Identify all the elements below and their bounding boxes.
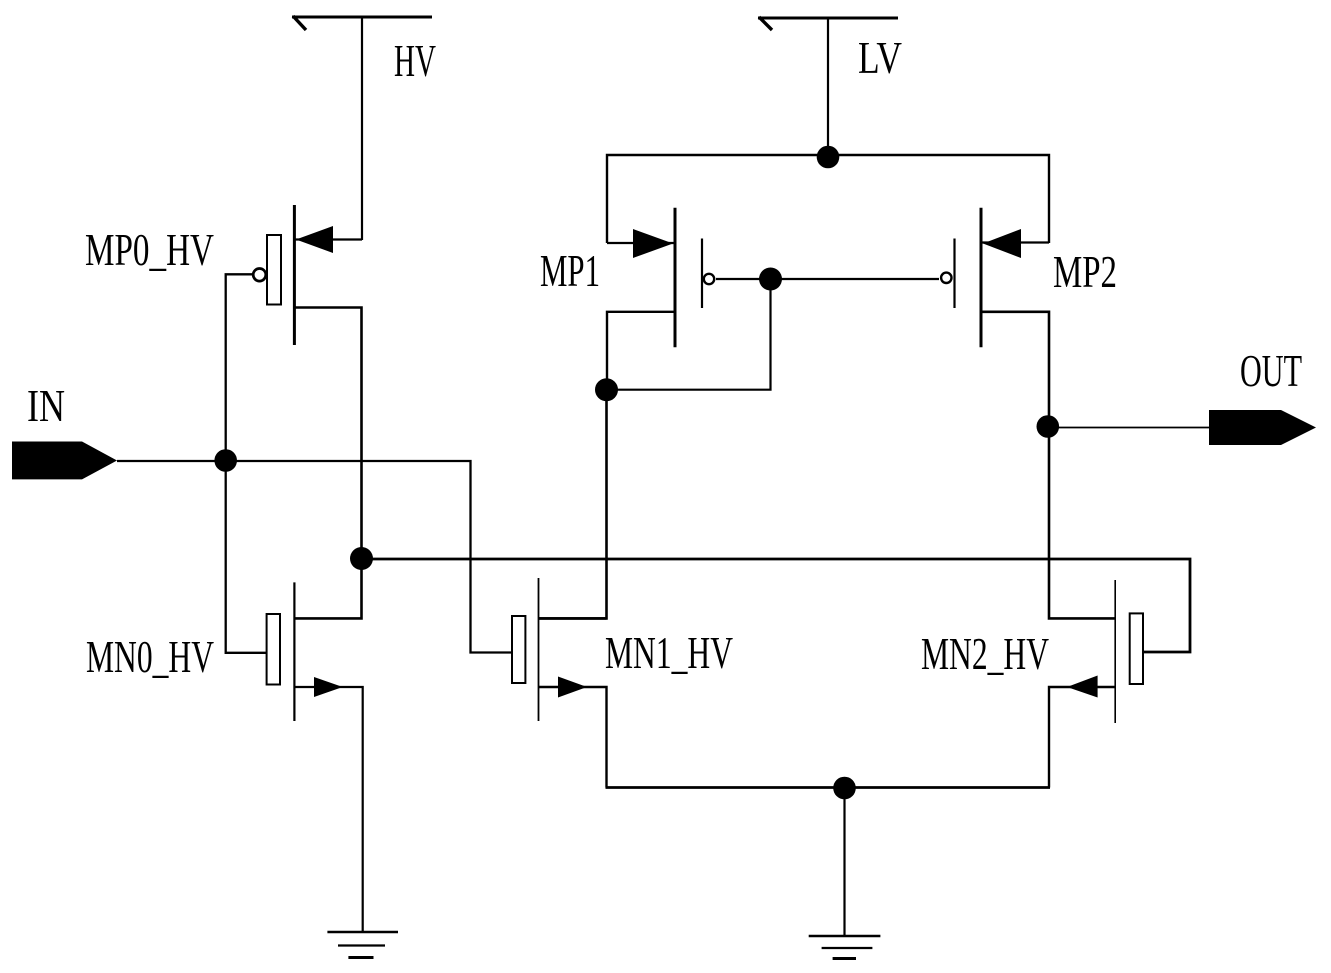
svg-text:IN: IN: [27, 380, 65, 431]
MN2 gate oxide rect: [1130, 613, 1143, 684]
wire OUT: [1049, 427, 1209, 429]
node MP1 drain junction: [595, 378, 618, 401]
node ground junction: [833, 777, 856, 800]
MP1 channel: [674, 208, 677, 348]
wire IN to MN1 gate: [117, 461, 512, 653]
wire HV stem: [361, 17, 363, 240]
wire ground stem: [843, 788, 845, 936]
wire MP0 source: [294, 238, 362, 240]
input port IN: [12, 442, 117, 480]
supply HV bar: [292, 16, 432, 19]
MP2 gate bubble: [941, 273, 951, 283]
wire MN2 source to ground rail: [1049, 687, 1115, 788]
ground (left): [327, 932, 398, 958]
MN1 source arrow: [558, 677, 587, 698]
output port OUT: [1209, 410, 1316, 445]
transistor MP1: [633, 208, 714, 348]
supply LV slash: [759, 17, 772, 30]
MP0 gate oxide rect: [267, 235, 281, 305]
svg-text:HV: HV: [394, 35, 436, 86]
svg-text:MP1: MP1: [540, 245, 600, 296]
wire LV rail to MP1/MP2 sources: [607, 155, 1049, 243]
svg-text:MN1_HV: MN1_HV: [605, 627, 733, 678]
svg-text:MP2: MP2: [1053, 246, 1117, 297]
MN0 gate oxide rect: [267, 614, 280, 685]
MP2 source arrow: [983, 229, 1021, 258]
transistor MN2_HV: [1067, 580, 1143, 723]
node IN junction: [214, 449, 237, 472]
svg-text:MN2_HV: MN2_HV: [921, 628, 1049, 679]
supply LV bar: [758, 17, 898, 20]
wire MP1 diode connection: [607, 279, 771, 390]
node X junction: [350, 547, 373, 570]
node MP1 gate junction: [759, 268, 782, 291]
wire IN node to MN0 gate: [226, 461, 267, 653]
wire node X to MN2 gate drop: [362, 559, 1191, 652]
MN2 channel: [1114, 580, 1116, 723]
MP0 gate bubble: [253, 269, 266, 282]
MP2 gate bar: [953, 239, 955, 309]
wire LV stem: [827, 18, 829, 157]
wire MP2 drain to MN2 drain: [981, 312, 1115, 619]
wire MP1 gate to MP2 gate: [716, 278, 939, 280]
node OUT junction: [1037, 415, 1060, 438]
MP0 source arrow: [296, 226, 333, 253]
wire MP1 source: [607, 242, 675, 244]
wire MN1 source to ground rail: [539, 687, 607, 788]
MP1 gate bar: [701, 239, 703, 309]
svg-text:OUT: OUT: [1240, 345, 1302, 396]
transistor MP0_HV: [253, 205, 333, 345]
wire MP1 drain to MN1 drain: [539, 390, 607, 618]
wire MP1 drain: [607, 312, 675, 390]
MN0 source arrow: [314, 677, 343, 697]
MP1 gate bubble: [704, 274, 714, 284]
wire ground rail: [606, 786, 1051, 789]
MN2 source arrow: [1067, 676, 1098, 698]
MP2 channel: [980, 208, 983, 348]
svg-text:MP0_HV: MP0_HV: [85, 224, 214, 275]
wire MP2 source: [981, 241, 1049, 243]
svg-text:MN0_HV: MN0_HV: [86, 631, 214, 682]
supply HV slash: [293, 16, 306, 30]
transistor MP2: [941, 208, 1021, 348]
transistor MN1_HV: [512, 578, 587, 721]
wire MP0 drain to MN0 drain (node X): [294, 308, 362, 619]
transistor MN0_HV: [267, 582, 343, 721]
MN1 gate oxide rect: [512, 616, 525, 683]
ground (right): [809, 936, 881, 959]
svg-text:LV: LV: [858, 32, 902, 83]
MN0 channel: [293, 582, 295, 721]
MP0 channel: [293, 205, 296, 345]
wire MN0 source to ground: [294, 687, 363, 932]
wire MN1 drain: [539, 617, 607, 620]
node LV rail junction: [817, 146, 840, 169]
wire IN node to MP0 gate: [226, 274, 253, 461]
MN1 channel: [538, 578, 540, 721]
MP1 source arrow: [633, 229, 673, 258]
